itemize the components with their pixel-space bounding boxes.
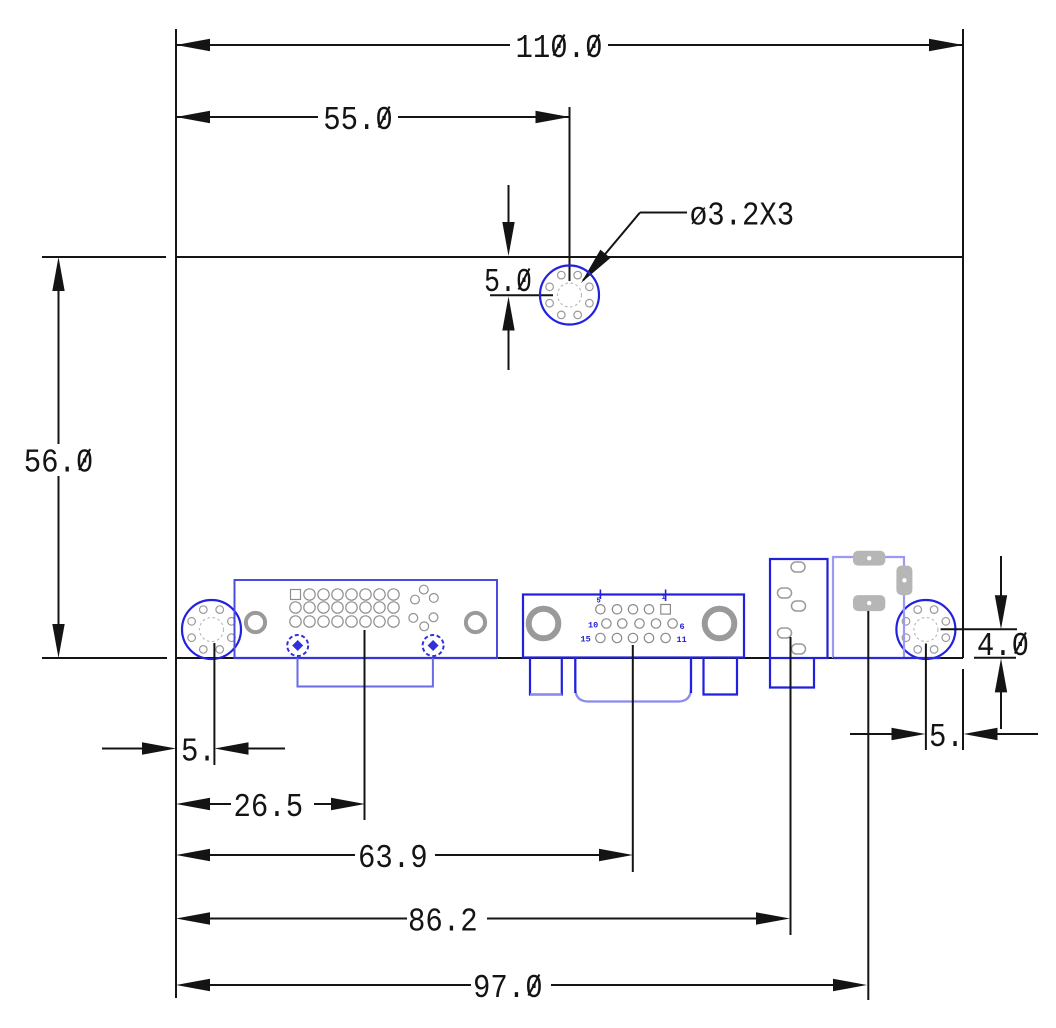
leader arrow for hole callout: [581, 213, 687, 284]
svg-text:5.: 5.: [929, 719, 964, 756]
audio jack pads: [778, 562, 806, 654]
dimension text 5.0: [484, 264, 532, 301]
dimension 5.0 extension line at hole center: [490, 294, 553, 296]
extension line DVI center (vertical): [364, 630, 366, 820]
DVI bottom edge blue overlay: [235, 657, 498, 659]
DVI mounting tab below board: [298, 658, 433, 687]
svg-text:6: 6: [680, 622, 685, 632]
dimension 56.0 vertical line: [52, 257, 64, 658]
extension line right hole center (vertical): [925, 644, 927, 751]
dimension 4.0 top reference line: [941, 628, 1017, 630]
svg-text:ø3.2X3: ø3.2X3: [690, 198, 794, 235]
svg-text:4.0: 4.0: [977, 628, 1029, 665]
power connector body: [833, 557, 904, 658]
svg-text:110.0: 110.0: [516, 30, 603, 67]
dimension text 4.0: [977, 628, 1029, 665]
extension line left hole center (vertical): [213, 643, 215, 765]
dimension 4.0 bottom reference line: [974, 657, 1016, 659]
dimension 5.0 up arrow: [502, 297, 514, 371]
DVI board lock post left: [287, 635, 308, 656]
audio jack tab below board: [770, 658, 814, 688]
DVI pin field 3x8: [290, 589, 399, 627]
svg-text:5.: 5.: [181, 734, 216, 771]
DVI connector body: [235, 580, 498, 658]
power pad middle: [853, 595, 885, 611]
svg-text:86.2: 86.2: [408, 904, 478, 941]
dimension text 97.0: [473, 970, 543, 1007]
extension line VGA center (vertical): [632, 645, 634, 872]
DVI jack screw right: [466, 613, 485, 632]
svg-text:11: 11: [677, 635, 687, 645]
DVI analog contacts: [409, 585, 438, 631]
power pad top: [853, 551, 885, 566]
extension line hole centerline (top): [569, 107, 571, 281]
mounting hole bottom-right: [896, 600, 955, 659]
dimension 26.5 line: [176, 798, 365, 810]
mounting hole top (ø3.2): [540, 266, 599, 325]
dimension 5. left line: [102, 742, 285, 754]
VGA connector body: [523, 595, 744, 658]
VGA jack screw right: [705, 609, 735, 639]
mounting hole bottom-left: [182, 600, 241, 659]
svg-text:5: 5: [597, 598, 601, 606]
VGA tab right below board: [704, 658, 738, 695]
dimension 55.0 line: [176, 111, 570, 123]
DVI jack screw left: [246, 613, 265, 632]
VGA shell below board: [575, 658, 691, 702]
dimension 97.0 line: [176, 979, 867, 991]
dimension 5.0 down arrow: [502, 185, 514, 256]
VGA jack screw left: [529, 609, 559, 639]
VGA pin number labels: [581, 621, 687, 646]
dimension 63.9 line: [176, 849, 633, 861]
dimension text 110.0: [516, 30, 603, 67]
extension line audio jack center (vertical): [790, 637, 792, 935]
dimension 110.0 line: [176, 39, 963, 51]
power pad right vertical: [896, 566, 912, 596]
dimension 5. right line: [850, 728, 1038, 740]
board top edge: [176, 256, 963, 258]
extension line left edge (vertical, full height): [175, 29, 177, 998]
extension line right edge below board: [962, 669, 964, 750]
dimension 4.0 down arrow: [995, 556, 1007, 629]
dimension text 56.0: [24, 445, 94, 482]
VGA pin 5 and 1 top ticks: [600, 590, 665, 602]
svg-text:26.5: 26.5: [234, 789, 304, 826]
audio jack body: [770, 559, 828, 658]
VGA tab left below board: [530, 658, 562, 695]
svg-text:63.9: 63.9: [358, 840, 428, 877]
svg-text:5.0: 5.0: [484, 264, 532, 301]
extension line power center (vertical): [867, 611, 869, 1000]
VGA tiny pin digits 5 and 1: [597, 594, 666, 606]
dimension text 55.0: [323, 102, 393, 139]
svg-text:10: 10: [588, 621, 598, 631]
dimension 86.2 line: [176, 912, 790, 924]
svg-text:15: 15: [581, 635, 591, 645]
board bottom edge: [176, 657, 963, 659]
extension of board top edge to left: [42, 256, 166, 258]
extension line right edge (vertical): [962, 29, 964, 658]
dimension 4.0 up arrow: [995, 658, 1007, 729]
svg-text:1: 1: [662, 594, 666, 602]
power connector bottom edge: [833, 657, 941, 659]
extension of board bottom edge to left: [42, 657, 167, 659]
DVI board lock post right: [423, 635, 444, 656]
VGA pin field 15 pins: [596, 605, 678, 643]
